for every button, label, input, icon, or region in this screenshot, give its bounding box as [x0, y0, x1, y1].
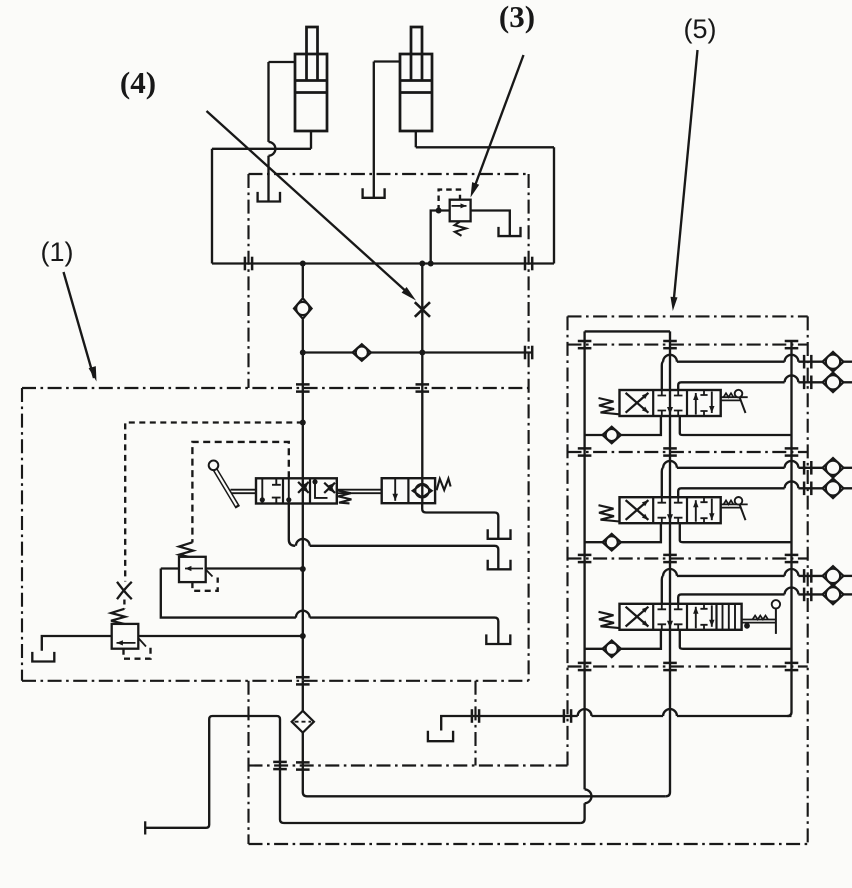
enclosure (1) left edge [21, 388, 23, 681]
wire SV2 work line B [678, 488, 784, 497]
stack valve SV1 body [620, 390, 721, 416]
wire main line L through valve region [302, 504, 304, 681]
valve SV2 cell1 crossed arrows [626, 500, 649, 520]
node relief junction dot on rail [428, 261, 434, 267]
valve SV3 spring (left) [599, 612, 620, 628]
enclosure (5) section divider 4 [568, 665, 808, 667]
reducing valve PR1 drain pilot (dashed) [192, 578, 217, 591]
valve SV1 detent link [721, 396, 748, 398]
wire branch line 352 [303, 351, 353, 353]
throttle X above PRV [117, 582, 132, 599]
valve SV2 detent notches [724, 500, 734, 504]
wire SV1 work port A to edge [844, 361, 852, 363]
cylinder 1 (left) [295, 54, 327, 131]
wire SV1 return branch [680, 416, 792, 435]
valve V1 spring (right) [338, 491, 352, 504]
valve SV3 cell1 crossed arrows [626, 607, 649, 627]
valve SV2 cell dividers [652, 497, 654, 523]
node dot PRV outlet junction [300, 633, 306, 639]
check valve SV2 feed [603, 534, 621, 551]
valve V1 cell2 line [288, 478, 290, 503]
wire main line L to filter [302, 681, 304, 711]
tank at relief valve outlet [499, 227, 521, 236]
valve V2 flow arrow (left cell) [394, 479, 396, 501]
wire manifold left edge [211, 149, 213, 264]
valve SV2 cell2 port stubs [658, 497, 683, 503]
reducing valve PR1 internal arrow [185, 568, 203, 570]
node dot main L at rail [300, 261, 306, 267]
wire main line L upper [302, 264, 304, 298]
wire V1 drain to tank T2 [289, 504, 295, 546]
valve SV2 cell3 down arrow [711, 499, 713, 521]
wire PR1 outlet to main line [206, 567, 303, 569]
pilot box (dashed) around lever valve [192, 442, 288, 543]
relief valve RV1 pilot line (dashed) [439, 190, 460, 211]
node V1 cell3 dot [312, 479, 317, 484]
valve SV2 cell3 blocked stubs [700, 497, 707, 523]
reducing valve PR1 outlet port stub [206, 570, 213, 577]
wire SV2 work line A [662, 468, 664, 497]
valve SV1 cell2 port stubs [658, 390, 683, 396]
tick SV3 work line B at right boundary [803, 588, 806, 602]
wire manifold right edge [553, 147, 555, 263]
valve V2 spring [437, 479, 451, 491]
tick manifold x=670 at divider 3 [663, 554, 677, 557]
wire main line L below filter [303, 733, 307, 797]
leader arrow for (5) [674, 50, 698, 303]
svg-text:(1): (1) [41, 237, 74, 267]
wire cyl1 rod-side port [269, 61, 296, 63]
valve SV3 detent [753, 616, 769, 620]
wire SV2 supply branch [585, 541, 603, 543]
tick main L crossing encl.1 top [296, 383, 310, 386]
tick manifold x=791.5 at divider 4 [785, 662, 799, 665]
pilot dashed stub below throttle [123, 600, 125, 610]
lever knob [209, 461, 219, 471]
relief valve RV1 body [450, 200, 471, 222]
valve SV3 joystick knob [772, 600, 780, 608]
cylinder 2 (right) [400, 54, 432, 131]
wire neutral passage line [666, 331, 670, 796]
wire cyl1 drain down to tank (hops main line) [267, 62, 269, 142]
wire return manifold [787, 341, 791, 716]
valve SV2 lever knob [735, 497, 743, 505]
tick SV2 work line B at right boundary [803, 482, 806, 496]
node dot main L at branch 352 [300, 350, 306, 356]
relief valve RV1 spring [455, 221, 466, 236]
reducing valve PR1 body [179, 557, 206, 582]
tick manifold x=670 at divider 1 [663, 340, 677, 343]
valve SV3 cell4 extra-position lines [722, 604, 724, 630]
tick manifold x=584.6 at divider 2 [578, 447, 592, 450]
valve V1 cell dividers [282, 478, 284, 503]
tank under cylinder 1 [258, 192, 280, 202]
node dot PR1 outlet junction [300, 566, 306, 572]
reducing valve PR1 spring [179, 542, 193, 557]
wire manifold bottom rail [212, 262, 554, 264]
wire V2 outlet to tank T1 [422, 503, 498, 538]
node dot branch meets throttle line [419, 350, 425, 356]
wire SV2 work port A to edge [844, 467, 852, 469]
relief valve PRV outlet stub [138, 638, 146, 647]
tick return line at boundary link [471, 709, 474, 723]
tick throttle crossing encl.1 top [416, 383, 430, 386]
check valve SV3 feed [603, 641, 621, 658]
node pilot tap dot [436, 208, 442, 214]
tick pump riser at pump-unit boundary [273, 761, 287, 764]
node V1 cell1 dot [260, 497, 265, 502]
valve V1 body [256, 478, 337, 503]
valve SV1 cell3 up arrow [695, 393, 697, 415]
wire cyl1 bottom port [310, 131, 312, 149]
valve SV3 pivot [744, 623, 750, 629]
leader arrow for (1) [64, 272, 95, 378]
valve SV3 actuator link [742, 619, 776, 621]
wire PRV to main line [138, 635, 302, 637]
wire throttle line through V2 [421, 478, 423, 503]
valve SV1 spring (left) [599, 398, 620, 414]
wire neutral return bottom run [307, 795, 666, 797]
tick return line at encl.5 left edge [563, 709, 566, 723]
wire pump riser [145, 716, 284, 828]
wire cyl2 rod-side port [374, 60, 400, 62]
relief valve PRV drain pilot (dashed) [124, 645, 151, 659]
valve SV2 lever arm [740, 504, 746, 520]
node V1 cell2 dot [286, 497, 291, 502]
tick manifold x=791.5 at divider 3 [785, 554, 799, 557]
coupler SV2 work port A [823, 458, 844, 478]
coupler SV2 work port B [823, 479, 844, 499]
tick manifold x=584.6 at divider 1 [578, 340, 592, 343]
leader arrow for (4) [207, 111, 410, 294]
mechanical rod V1-V2 [337, 489, 382, 491]
valve SV3 cell2 port stubs [658, 604, 683, 610]
valve SV2 cell3 up arrow [695, 500, 697, 522]
wire SV3 supply branch [585, 648, 603, 650]
wire manifold top-right segment [416, 146, 554, 148]
svg-text:(5): (5) [684, 14, 717, 44]
valve V2 body [382, 478, 435, 503]
tank T1 (behind V2) [488, 529, 511, 539]
wire SV3 return branch [680, 630, 792, 649]
wire pump pressure bottom run [284, 822, 580, 824]
wire relief riser from bottom rail [431, 211, 450, 264]
enclosure E2 (upper valve block) top edge [249, 173, 529, 175]
valve SV1 cell3 blocked stubs [700, 390, 707, 416]
wire throttle line upper [421, 264, 423, 479]
wire cyl2 bottom port [415, 131, 417, 147]
valve SV2 detent link [721, 503, 748, 505]
coupler SV1 work port A [823, 352, 844, 372]
valve SV1 cell3 down arrow [711, 392, 713, 414]
valve V1 cell1 blocked ports [272, 478, 281, 503]
tick SV1 work line B at right boundary [803, 376, 806, 390]
valve SV1 cell dividers [652, 390, 654, 416]
check valve on main line L [294, 298, 312, 319]
valve SV3 joystick stick [775, 609, 777, 634]
wire manifold top-left segment [212, 148, 311, 150]
valve V1 cell2 crossed arrows [298, 482, 309, 493]
valve SV1 lever arm [740, 397, 746, 413]
valve SV2 cell2 neutral arrow [667, 514, 673, 522]
valve SV3 cell3 down arrow [711, 605, 713, 627]
relief valve PRV body [112, 624, 139, 649]
enclosure (5) section divider 1 [568, 344, 808, 346]
relief valve PRV spring [111, 609, 125, 624]
wire SV3 work line B [678, 594, 784, 603]
lever shaft [214, 467, 238, 507]
stack valve SV2 body [620, 497, 721, 523]
enclosure (5) section divider 3 [568, 557, 808, 559]
node dot main L at pilot branch [300, 420, 306, 426]
enclosure (5) section divider 2 [568, 451, 808, 453]
enclosure (5) right edge [807, 316, 809, 844]
tank T4 (PRV outlet) [32, 652, 54, 662]
wire supply manifold [583, 331, 585, 789]
filter F1 (diamond with dashed core) [292, 711, 314, 733]
wire SV3 work port A to edge [844, 575, 852, 577]
enclosure (1) bottom edge [22, 680, 529, 682]
wire main line L mid [302, 320, 304, 479]
wire SV1 work line B [678, 382, 784, 390]
relief valve PRV internal arrow [117, 642, 136, 644]
valve SV3 cell3 blocked stubs [700, 604, 707, 630]
coupler SV1 work port B [823, 373, 844, 393]
wire return to suction tank [677, 715, 792, 717]
check valve SV1 feed [603, 427, 621, 444]
enclosure shared right edge [528, 174, 530, 681]
pump unit top boundary [249, 764, 568, 766]
coupler SV3 work port A [823, 566, 844, 586]
wire main line L inside valve [302, 478, 304, 503]
tick SV3 work line A at right boundary [803, 569, 806, 583]
valve SV3 cell3 up arrow [695, 607, 697, 629]
wire SV2 return branch [680, 523, 792, 542]
wire PR1 inlet [161, 567, 179, 569]
coupler SV3 work port B [823, 585, 844, 605]
pilot line (dashed) from main to throttle [125, 423, 303, 582]
pump unit bottom boundary [249, 843, 808, 845]
node dot throttle at rail [419, 261, 425, 267]
tick right edge crossing bottom rail [524, 257, 527, 271]
wire reducing-valve line to tank T3 [161, 569, 296, 618]
enclosure (1) top edge [22, 387, 529, 389]
tick manifold x=791.5 at divider 2 [785, 447, 799, 450]
tick main L crossing pump-unit boundary [296, 761, 310, 764]
valve SV3 cell dividers [652, 604, 654, 630]
tank T2 [488, 560, 511, 570]
valve SV1 detent notches [724, 393, 734, 397]
wire SV2 work port B to edge [844, 487, 852, 489]
tick manifold x=670 at divider 4 [663, 662, 677, 665]
wire relief outlet [471, 211, 510, 236]
enclosure (5) left edge [566, 316, 568, 765]
valve SV1 cell2 neutral arrow [667, 407, 673, 415]
valve SV1 lever knob [735, 390, 743, 398]
wire neutral manifold top loop [585, 330, 670, 332]
wire SV3 work port B to edge [844, 593, 852, 595]
valve SV2 spring (left) [599, 505, 620, 521]
tick SV2 work line A at right boundary [803, 461, 806, 475]
valve V1 cell3 crossed arrows [324, 483, 335, 493]
boundary link pump unit [474, 681, 476, 766]
tick manifold x=670 at divider 2 [663, 447, 677, 450]
tank under cylinder 2 [363, 188, 385, 198]
svg-text:(3): (3) [499, 0, 535, 34]
suction tank T5 [428, 731, 453, 742]
lever handle link [231, 489, 257, 491]
wire SV3 work line A [662, 576, 664, 604]
leader arrow for (3) [473, 55, 524, 191]
wire SV1 work port B to edge [844, 381, 852, 383]
valve V1 cell1 through line [261, 478, 263, 503]
svg-text:(4): (4) [120, 65, 156, 100]
wire cyl2 drain down to tank [373, 62, 375, 198]
tick manifold x=584.6 at divider 3 [578, 554, 592, 557]
enclosure (5) top edge [568, 315, 808, 317]
wire SV1 supply branch [585, 434, 603, 436]
tick SV1 work line A at right boundary [803, 355, 806, 369]
valve V2 cell divider [407, 478, 409, 503]
valve SV3 cell2 neutral arrow [667, 621, 673, 629]
valve V1 cell3 port line [315, 478, 328, 498]
check valve on branch 352 [353, 344, 371, 361]
enclosure E2 left edge [247, 174, 249, 388]
tick return manifold at divider 1 [785, 340, 799, 343]
relief valve RV1 internal arrow [452, 205, 467, 207]
orifice (4) variable restrictor [415, 302, 430, 317]
plugged port end bar [144, 821, 146, 834]
wire SV1 work line A [662, 362, 664, 390]
wire PRV tank line [42, 636, 112, 651]
valve SV1 cell1 crossed arrows [626, 393, 649, 413]
tick manifold x=584.6 at divider 4 [578, 662, 592, 665]
tick main L crossing encl.1 bottom [296, 676, 310, 679]
tick E2 left edge crossing bottom rail [244, 257, 247, 271]
tank T3 [486, 634, 510, 644]
tick branch crossing encl right edge [524, 346, 527, 360]
stack valve SV3 body [620, 604, 742, 630]
pump unit left boundary [247, 681, 249, 844]
valve V2 check element [413, 484, 432, 498]
